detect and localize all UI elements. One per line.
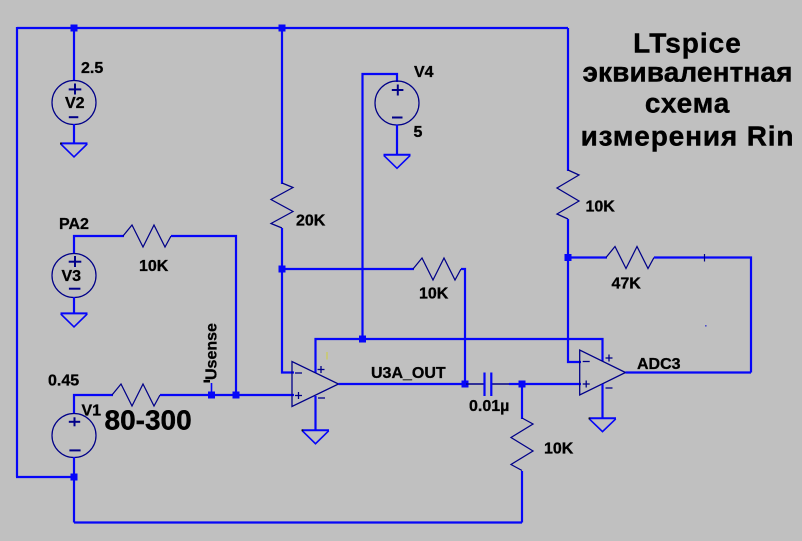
node junction 47K bbox=[565, 254, 572, 261]
artifact yellow tick bbox=[326, 352, 328, 360]
wire bottom rail bbox=[74, 521, 522, 523]
wire V3 top stub bbox=[74, 236, 124, 253]
svg-text:V3: V3 bbox=[62, 268, 82, 285]
wire ADC3 output bbox=[626, 371, 752, 373]
node junction top 20K bbox=[279, 25, 286, 32]
wire ADC3 Vminus to ground bbox=[601, 384, 603, 418]
wire end tick bbox=[704, 254, 706, 262]
svg-text:20K: 20K bbox=[296, 213, 326, 230]
wire 47K right to output bbox=[654, 258, 751, 373]
wire Rin to op-amp input bbox=[160, 394, 294, 396]
wire V4 to ground bbox=[396, 125, 398, 155]
node junction V4 rail bbox=[359, 336, 366, 343]
svg-text:10K: 10K bbox=[419, 286, 449, 303]
node junction 20K branch bbox=[279, 266, 286, 273]
svg-text:0.45: 0.45 bbox=[48, 373, 79, 390]
speck dot right bbox=[705, 325, 707, 327]
svg-text:LTspice: LTspice bbox=[633, 27, 742, 58]
resistor R-PA2 10K bbox=[123, 225, 171, 247]
wire feedback down to output bbox=[461, 269, 465, 384]
wire cap to junction bbox=[509, 383, 522, 385]
svg-text:47K: 47K bbox=[612, 276, 642, 293]
svg-text:5: 5 bbox=[414, 124, 423, 141]
node junction U3A_OUT bbox=[462, 381, 469, 388]
op-amp U3A bbox=[292, 362, 339, 407]
voltage source V1 bbox=[52, 414, 96, 458]
svg-text:0.01µ: 0.01µ bbox=[469, 398, 509, 415]
resistor R 20K bbox=[271, 183, 293, 228]
svg-text:Usense: Usense bbox=[204, 323, 221, 380]
wire V3 to ground bbox=[73, 297, 75, 313]
title text bbox=[581, 27, 795, 151]
wire cap junction to ADC3 input bbox=[522, 383, 581, 385]
svg-text:схема: схема bbox=[645, 88, 730, 119]
wire U3A output bbox=[339, 383, 466, 385]
wire feedback horizontal bbox=[282, 268, 414, 270]
speck gnd ADC3 bbox=[589, 418, 591, 420]
resistor Rfb 10K bbox=[413, 258, 461, 280]
wire V2 top stub bbox=[73, 28, 75, 81]
resistor Rr 10K bbox=[557, 170, 579, 219]
voltage source V3 bbox=[52, 254, 96, 298]
wire right 10K to junction and ADC3 inverting input bbox=[568, 219, 581, 362]
speck gnd V2 bbox=[60, 143, 62, 145]
svg-text:PA2: PA2 bbox=[59, 216, 89, 233]
svg-text:U3A_OUT: U3A_OUT bbox=[371, 365, 446, 382]
svg-text:V2: V2 bbox=[65, 95, 85, 112]
voltage source V2 bbox=[52, 81, 96, 125]
ground U3A bbox=[302, 430, 329, 444]
wire 20K bottom to inverting input bbox=[282, 228, 294, 373]
node junction top V2 bbox=[71, 25, 78, 32]
wire V2 to ground bbox=[73, 124, 75, 143]
node junction cap right bbox=[519, 381, 526, 388]
op-amp ADC3 bbox=[580, 350, 626, 395]
wire top rail bbox=[17, 27, 568, 29]
svg-text:эквивалентная: эквивалентная bbox=[582, 57, 792, 88]
node junction bottom-left bbox=[71, 474, 78, 481]
wire bottom-right vertical bbox=[521, 471, 523, 523]
wire V1 top stub bbox=[74, 395, 113, 414]
svg-text:10K: 10K bbox=[586, 199, 616, 216]
wire left vertical bbox=[16, 27, 18, 477]
svg-text:10K: 10K bbox=[544, 441, 574, 458]
speck gnd U3A bbox=[302, 429, 304, 431]
wire bottom-left horizontal bbox=[16, 476, 74, 478]
svg-text:10K: 10K bbox=[139, 258, 169, 275]
wire V1 bottom bbox=[73, 457, 75, 523]
resistor Rf 47K bbox=[606, 247, 654, 269]
ground V2 bbox=[61, 143, 88, 157]
wire U3A Vminus to ground bbox=[314, 396, 316, 430]
resistor Rb 10K bbox=[511, 418, 533, 471]
ground V3 bbox=[61, 313, 88, 327]
svg-text:2.5: 2.5 bbox=[81, 60, 103, 77]
resistor Rin 80-300 bbox=[112, 384, 160, 406]
wire Usense stub bbox=[211, 383, 213, 395]
svg-text:измерения Rin: измерения Rin bbox=[581, 121, 795, 152]
wire 20K top bbox=[281, 28, 283, 184]
voltage source V4 bbox=[375, 81, 419, 125]
wire bottom 10K top lead bbox=[521, 384, 523, 419]
wire V4 branch bbox=[363, 74, 398, 339]
svg-text:ADC3: ADC3 bbox=[637, 356, 681, 373]
wire PA2 resistor to Usense column bbox=[171, 236, 236, 395]
svg-text:V4: V4 bbox=[414, 64, 434, 81]
ground ADC3 bbox=[589, 418, 616, 431]
wire right branch top bbox=[567, 28, 569, 171]
capacitor C1 0.01u bbox=[466, 373, 510, 397]
wire 47K left lead bbox=[568, 256, 607, 258]
ground V4 bbox=[384, 155, 411, 169]
wire power rail U3A to ADC3 bbox=[316, 339, 603, 373]
node junction PA2 branch bbox=[233, 392, 240, 399]
svg-text:V1: V1 bbox=[82, 403, 102, 420]
node junction Usense bbox=[208, 392, 215, 399]
svg-text:80-300: 80-300 bbox=[105, 405, 192, 436]
